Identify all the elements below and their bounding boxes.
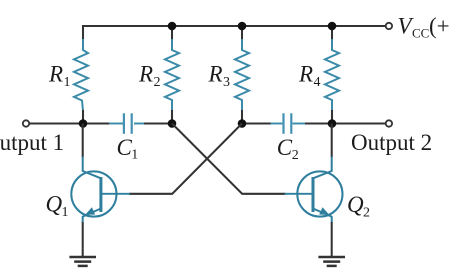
wire R3 bottom stub bbox=[241, 110, 243, 124]
svg-text:C: C bbox=[277, 135, 293, 160]
ground under Q2 bbox=[318, 257, 345, 266]
terminal Vcc bbox=[386, 23, 392, 29]
terminal Output 1 bbox=[23, 120, 29, 126]
svg-text:1: 1 bbox=[62, 205, 69, 220]
transistor Q2 bbox=[297, 157, 342, 223]
wire node to Output 2 bbox=[332, 122, 386, 124]
wire R1 bottom stub bbox=[82, 110, 84, 124]
resistor R2 bbox=[165, 39, 179, 111]
wire R2 bottom stub bbox=[171, 110, 173, 124]
label R1 bbox=[48, 62, 71, 91]
wire C2 right lead bbox=[293, 123, 306, 125]
label Vcc(+ bbox=[398, 14, 450, 41]
label C2 bbox=[277, 135, 299, 163]
svg-text:4: 4 bbox=[314, 75, 321, 90]
wire Q1 emitter to ground bbox=[82, 222, 84, 257]
wire node R1 to C1 bbox=[83, 122, 110, 124]
svg-text:2: 2 bbox=[154, 75, 161, 90]
wire Q2 base lead teal bbox=[285, 193, 299, 195]
wire C1 to node R2 bbox=[144, 122, 172, 124]
wire Q1 collector from node bbox=[82, 124, 84, 158]
wire R4 top stub bbox=[331, 26, 333, 40]
label R3 bbox=[208, 62, 231, 91]
label Q2 bbox=[347, 192, 370, 221]
svg-text:Q: Q bbox=[46, 192, 63, 217]
capacitor C2 bbox=[284, 113, 292, 134]
node R1 bottom bbox=[79, 119, 88, 128]
svg-text:2: 2 bbox=[292, 148, 299, 163]
wire cross-couple node R2 to Q2 base bbox=[172, 124, 286, 194]
wire C1 left lead bbox=[109, 123, 123, 125]
svg-text:R: R bbox=[48, 62, 63, 87]
capacitor C1 bbox=[124, 113, 132, 134]
wire R1 top stub bbox=[82, 25, 84, 40]
label Q1 bbox=[46, 192, 69, 221]
wire Q2 emitter to ground bbox=[331, 222, 333, 257]
svg-text:R: R bbox=[298, 62, 313, 87]
resistor R1 bbox=[74, 39, 88, 111]
wire C1 right lead bbox=[134, 123, 145, 125]
svg-text:(+: (+ bbox=[429, 14, 450, 39]
label R4 bbox=[298, 62, 321, 91]
node R4 bottom bbox=[328, 119, 337, 128]
svg-text:Q: Q bbox=[347, 192, 364, 217]
resistor R3 bbox=[235, 39, 249, 111]
svg-text:1: 1 bbox=[64, 75, 71, 90]
terminal Output 2 bbox=[386, 120, 392, 126]
svg-text:R: R bbox=[208, 62, 223, 87]
wire node R3 to C2 bbox=[242, 122, 272, 124]
svg-text:1: 1 bbox=[131, 147, 138, 162]
label R2 bbox=[138, 62, 161, 91]
wire Output 1 to node bbox=[29, 122, 83, 124]
wire C2 to node R4 bbox=[305, 122, 332, 124]
node R3 bottom bbox=[238, 119, 247, 128]
wire top supply rail bbox=[83, 25, 386, 27]
svg-text:Output 2: Output 2 bbox=[351, 130, 432, 155]
node R2 top bbox=[168, 22, 177, 31]
wire cross-couple node R3 to Q1 base bbox=[129, 124, 242, 194]
wire C2 left lead bbox=[271, 123, 283, 125]
svg-text:3: 3 bbox=[223, 75, 230, 90]
label C1 bbox=[117, 135, 139, 163]
node R4 top bbox=[328, 22, 337, 31]
wire Q2 collector from node bbox=[331, 124, 333, 158]
svg-text:2: 2 bbox=[363, 206, 370, 221]
wire R2 top stub bbox=[171, 26, 173, 40]
resistor R4 bbox=[325, 39, 339, 111]
svg-text:CC: CC bbox=[412, 26, 429, 41]
svg-text:Output 1: Output 1 bbox=[0, 130, 64, 155]
ground under Q1 bbox=[69, 257, 96, 266]
svg-text:C: C bbox=[117, 135, 133, 160]
wire R4 bottom stub bbox=[331, 110, 333, 124]
wire R3 top stub bbox=[241, 26, 243, 40]
svg-text:R: R bbox=[138, 62, 153, 87]
node R3 top bbox=[238, 22, 247, 31]
transistor Q1 bbox=[71, 157, 116, 223]
node R2 bottom bbox=[168, 119, 177, 128]
wire Q1 base lead teal bbox=[117, 193, 131, 195]
